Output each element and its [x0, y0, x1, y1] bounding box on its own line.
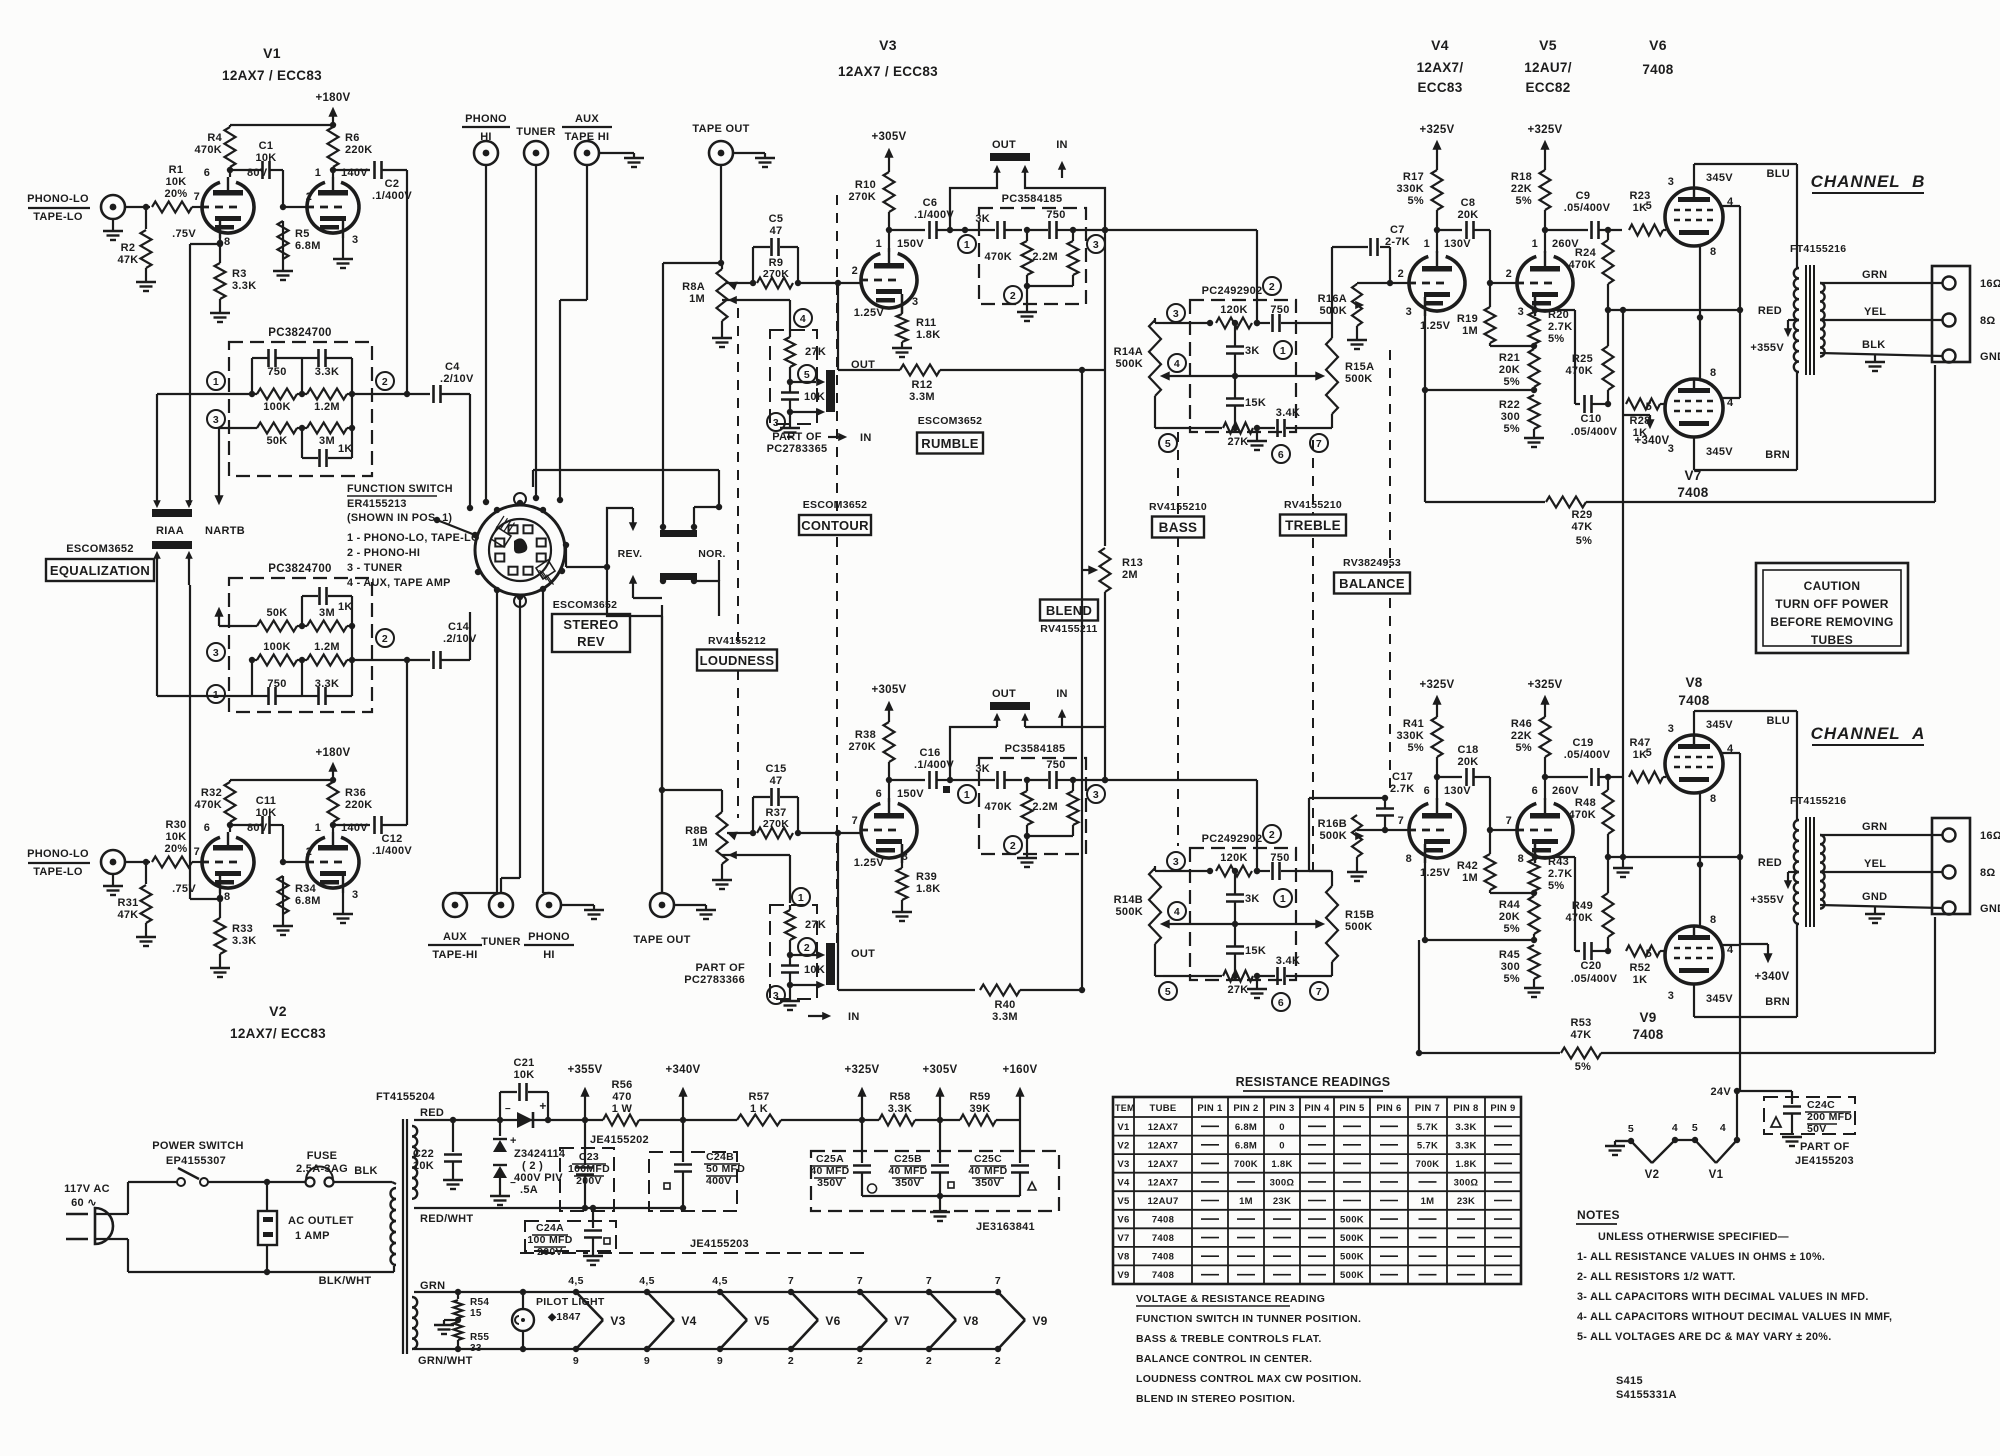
caution box — [1756, 563, 1908, 653]
svg-text:270K: 270K — [763, 268, 789, 280]
ground Rk3 — [1524, 437, 1544, 439]
svg-text:V2: V2 — [1645, 1169, 1660, 1181]
heater V3 — [573, 1289, 579, 1295]
slide bar OUT lower — [826, 943, 835, 985]
svg-text:BALANCE: BALANCE — [1339, 576, 1405, 591]
svg-text:R56: R56 — [611, 1079, 632, 1091]
wire grid V3b — [798, 832, 861, 834]
svg-text:470: 470 — [612, 1091, 631, 1103]
svg-text:3.3M: 3.3M — [909, 391, 935, 403]
svg-text:27K: 27K — [1227, 984, 1248, 996]
svg-text:500K: 500K — [1340, 1270, 1364, 1281]
svg-text:.75V: .75V — [172, 883, 196, 895]
svg-text:STEREO: STEREO — [563, 617, 618, 632]
svg-text:YEL: YEL — [1864, 858, 1886, 870]
svg-text:R36: R36 — [345, 787, 366, 799]
arrows up bar2 — [154, 552, 160, 558]
wire R40 column — [837, 833, 839, 990]
svg-text:JE4155203: JE4155203 — [690, 1238, 749, 1250]
svg-text:12AX7 / ECC83: 12AX7 / ECC83 — [838, 64, 938, 79]
svg-text:R41: R41 — [1403, 718, 1424, 730]
svg-text:C25B: C25B — [894, 1153, 922, 1165]
transformer secondary — [1820, 835, 1825, 909]
svg-text:3: 3 — [1668, 723, 1674, 735]
svg-text:R40: R40 — [994, 999, 1015, 1011]
wire plug up — [127, 1182, 129, 1214]
svg-text:7: 7 — [995, 1275, 1001, 1287]
svg-text:V5: V5 — [754, 1314, 769, 1328]
capacitor 3.3K — [302, 357, 318, 359]
capacitor C23 — [584, 1120, 586, 1165]
wire switch to node — [208, 1181, 267, 1183]
dashed JE4155203 line — [520, 1252, 588, 1254]
svg-text:PC2492902: PC2492902 — [1202, 285, 1263, 297]
wire aux gnd — [599, 152, 634, 154]
capacitor C18 20K — [1437, 776, 1462, 778]
capacitor 3.3K — [302, 695, 318, 697]
svg-text:3.3M: 3.3M — [992, 1011, 1018, 1023]
svg-text:RV4155211: RV4155211 — [1040, 623, 1097, 635]
resistor R29 47K 5% — [1424, 390, 1426, 502]
triode V5 half — [1517, 256, 1573, 311]
resistor R49 470K — [1603, 893, 1614, 937]
dashed box PC2492902 — [1190, 848, 1296, 980]
circled 3 lower — [207, 643, 225, 661]
arrow IN upper — [828, 436, 842, 438]
svg-text:R1: R1 — [169, 164, 184, 176]
svg-text:7408: 7408 — [1152, 1233, 1174, 1244]
ground C22 — [443, 1179, 463, 1181]
svg-text:8: 8 — [1710, 367, 1716, 379]
svg-text:.05/400V: .05/400V — [1564, 202, 1611, 214]
capacitor 3K tone — [1226, 345, 1244, 348]
svg-text:FUNCTION SWITCH: FUNCTION SWITCH — [347, 483, 453, 495]
svg-text:1.8K: 1.8K — [1455, 1159, 1476, 1170]
svg-text:5: 5 — [1646, 200, 1652, 212]
svg-text:R14A: R14A — [1114, 346, 1143, 358]
transformer secondary RED — [412, 1126, 417, 1199]
terminal box — [1932, 266, 1970, 362]
svg-text:AC OUTLET: AC OUTLET — [288, 1215, 354, 1227]
svg-text:IN: IN — [848, 1011, 860, 1023]
svg-text:0: 0 — [1279, 1140, 1285, 1151]
svg-text:300: 300 — [1501, 961, 1520, 973]
svg-text:470K: 470K — [195, 799, 223, 811]
svg-text:7408: 7408 — [1678, 693, 1709, 708]
wire V7 pin4 — [1720, 397, 1740, 399]
svg-text:7408: 7408 — [1152, 1215, 1174, 1226]
ground — [210, 967, 230, 969]
dashed gang bass — [1177, 432, 1179, 516]
resistor R33 3.3K — [219, 893, 221, 918]
svg-text:16Ω: 16Ω — [1980, 278, 2000, 290]
svg-text:33: 33 — [470, 1343, 482, 1354]
svg-text:3.3K: 3.3K — [888, 1103, 912, 1115]
pot R16A 500K — [1357, 282, 1390, 284]
svg-text:100MFD: 100MFD — [568, 1163, 610, 1175]
wire to grid2 — [282, 825, 284, 862]
svg-text:.2/10V: .2/10V — [440, 373, 474, 385]
AC outlet — [258, 1211, 277, 1245]
capacitor C25C 40MFD 350V — [1011, 1164, 1029, 1167]
jack TAPE OUT top — [709, 141, 733, 165]
svg-text:RV4155212: RV4155212 — [708, 635, 766, 647]
svg-text:PART OF: PART OF — [1800, 1141, 1850, 1153]
svg-text:3K: 3K — [975, 763, 990, 775]
svg-text:2- ALL RESISTORS 1/2 WATT.: 2- ALL RESISTORS 1/2 WATT. — [1577, 1271, 1736, 1283]
svg-text:4,5: 4,5 — [712, 1275, 728, 1287]
capacitor C25A 40MFD 350V — [853, 1164, 871, 1167]
svg-text:R58: R58 — [889, 1091, 910, 1103]
svg-text:UNLESS OTHERWISE SPECIFIED—: UNLESS OTHERWISE SPECIFIED— — [1598, 1231, 1789, 1243]
svg-text:300Ω: 300Ω — [1270, 1177, 1295, 1188]
wire rail — [230, 779, 333, 781]
node plate2 — [330, 167, 336, 173]
svg-text:3: 3 — [213, 647, 219, 659]
wire tap GRN — [1820, 834, 1942, 836]
svg-text:BALANCE CONTROL IN CENTER.: BALANCE CONTROL IN CENTER. — [1136, 1353, 1312, 1365]
capacitor 750 rumble lower — [1027, 779, 1048, 781]
svg-text:2: 2 — [1269, 829, 1275, 841]
box RUMBLE — [917, 433, 983, 454]
resistor 120K — [1216, 318, 1252, 329]
ground C24C — [1782, 1136, 1802, 1138]
svg-text:40 MFD: 40 MFD — [968, 1165, 1007, 1177]
svg-text:+355V: +355V — [567, 1064, 602, 1076]
svg-text:330K: 330K — [1397, 730, 1425, 742]
svg-text:ESCOM3652: ESCOM3652 — [66, 543, 134, 555]
wires nodes — [251, 660, 253, 696]
svg-text:V7: V7 — [894, 1314, 909, 1328]
svg-text:2: 2 — [382, 633, 388, 645]
svg-text:1: 1 — [315, 167, 321, 179]
svg-text:3: 3 — [213, 414, 219, 426]
svg-text:GRN: GRN — [1862, 269, 1887, 281]
svg-text:7: 7 — [1316, 986, 1322, 998]
svg-text:7: 7 — [788, 1275, 794, 1287]
svg-text:50K: 50K — [266, 607, 287, 619]
wiper R8A — [728, 282, 737, 289]
capacitor 15K tone — [1226, 397, 1244, 400]
wire C17 to grid — [1382, 827, 1388, 833]
transformer FT4155204 primary — [391, 1188, 397, 1265]
wire R8A tap to 27K — [748, 299, 790, 301]
ground R11 — [892, 347, 912, 349]
svg-text:V1: V1 — [263, 45, 281, 61]
wire R12 up — [1082, 369, 1105, 371]
circled 4 — [794, 309, 812, 327]
svg-text:TREBLE: TREBLE — [1285, 518, 1341, 533]
svg-text:3: 3 — [1668, 990, 1674, 1002]
arrow into bar1 right — [186, 501, 192, 507]
wire rk join — [1490, 345, 1534, 347]
circled 2 — [376, 372, 394, 390]
wire row3 — [1163, 427, 1222, 429]
resistor R58 3.3K — [879, 1115, 915, 1126]
wire eq2 out — [352, 659, 407, 661]
svg-text:2M: 2M — [1122, 569, 1138, 581]
svg-text:V2: V2 — [269, 1003, 287, 1019]
pot wiper R15B — [1316, 920, 1324, 928]
resistor R43 2.7K 5% — [1534, 844, 1536, 857]
svg-text:C17: C17 — [1392, 771, 1413, 783]
svg-text:8: 8 — [224, 236, 230, 248]
svg-text:7408: 7408 — [1632, 1027, 1663, 1042]
svg-text:V6: V6 — [1117, 1215, 1129, 1226]
capacitor C14 .2/10V — [407, 659, 430, 661]
svg-text:470K: 470K — [985, 801, 1013, 813]
svg-text:8Ω: 8Ω — [1980, 867, 1996, 879]
resistor 27K upper — [785, 337, 795, 367]
resistor 100K — [257, 389, 297, 400]
svg-text:PIN 4: PIN 4 — [1304, 1103, 1330, 1114]
wire tapeout gnd — [733, 152, 765, 154]
ground rumble lower — [1026, 836, 1028, 858]
switch bar 2 — [152, 541, 192, 549]
svg-text:2.7K: 2.7K — [1548, 321, 1572, 333]
svg-text:PIN 6: PIN 6 — [1376, 1103, 1401, 1114]
svg-text:PC3824700: PC3824700 — [268, 327, 331, 339]
ground R8A — [712, 337, 732, 339]
svg-text:500K: 500K — [1345, 921, 1373, 933]
wire to grid2 — [282, 170, 284, 207]
svg-text:3.3K: 3.3K — [315, 366, 339, 378]
transformer core — [1805, 265, 1807, 375]
resistor R38 270K — [884, 722, 895, 762]
box STEREO REV — [552, 614, 630, 652]
wire +160V down — [1019, 1120, 1021, 1163]
svg-text:7: 7 — [1398, 815, 1404, 827]
resistor R17 330K 5% — [1432, 170, 1443, 210]
wire blend col — [1081, 370, 1083, 990]
svg-text:3.4K: 3.4K — [1276, 955, 1300, 967]
heater V6 — [788, 1289, 794, 1295]
svg-text:.75V: .75V — [172, 228, 196, 240]
svg-text:3 - TUNER: 3 - TUNER — [347, 562, 403, 574]
capacitor C15 47 — [752, 797, 754, 833]
svg-text:1.2M: 1.2M — [314, 641, 340, 653]
svg-text:ECC82: ECC82 — [1525, 80, 1570, 95]
svg-text:3.3K: 3.3K — [232, 935, 256, 947]
svg-text:9: 9 — [644, 1355, 650, 1367]
svg-text:V8: V8 — [1685, 675, 1702, 690]
jack PHONO HI — [474, 141, 498, 165]
wire tapeout2 gnd — [674, 904, 706, 906]
svg-text:12AX7/: 12AX7/ — [1417, 60, 1464, 75]
svg-text:8: 8 — [1710, 246, 1716, 258]
svg-text:8: 8 — [224, 891, 230, 903]
heater V8 — [926, 1289, 932, 1295]
svg-text:RV4155210: RV4155210 — [1284, 499, 1342, 511]
svg-text:6: 6 — [204, 167, 210, 179]
svg-text:350V: 350V — [975, 1177, 1001, 1189]
resistor 1.2M — [307, 389, 347, 400]
heater V4 — [644, 1289, 650, 1295]
triode R3 section A — [202, 837, 254, 888]
svg-text:10K: 10K — [165, 176, 186, 188]
svg-text:C4: C4 — [445, 361, 460, 373]
svg-text:R15B: R15B — [1345, 909, 1374, 921]
svg-text:6: 6 — [1532, 785, 1538, 797]
wire cathode V4 col — [1424, 297, 1426, 390]
wire row2 — [1167, 923, 1318, 925]
svg-text:500K: 500K — [1340, 1215, 1364, 1226]
wire sw bottom 2 — [519, 597, 521, 878]
svg-text:GRN: GRN — [1862, 821, 1887, 833]
resistor R2 47K — [145, 207, 147, 229]
svg-text:PC3584185: PC3584185 — [1002, 193, 1063, 205]
resistor R48 470K — [1607, 776, 1609, 778]
svg-text:1.25V: 1.25V — [854, 307, 885, 319]
ground — [136, 281, 156, 283]
svg-text:330K: 330K — [1397, 183, 1425, 195]
svg-text:PIN 8: PIN 8 — [1453, 1103, 1478, 1114]
svg-text:470K: 470K — [1569, 809, 1597, 821]
resistor 1.2M — [307, 655, 347, 666]
svg-text:V3: V3 — [610, 1314, 625, 1328]
ground tap — [1874, 907, 1876, 914]
jack PHONO-LO/TAPE-LO — [101, 850, 125, 874]
svg-text:BRN: BRN — [1765, 996, 1790, 1008]
wire R8B top — [662, 789, 722, 791]
svg-text:1M: 1M — [1462, 325, 1478, 337]
svg-text:C1: C1 — [259, 140, 274, 152]
wire V6 plate — [1693, 164, 1695, 188]
ground R39 — [892, 911, 912, 913]
svg-text:5%: 5% — [1548, 333, 1565, 345]
wire B+ rail — [414, 1119, 585, 1121]
svg-text:80V: 80V — [247, 822, 268, 834]
svg-text:3: 3 — [1406, 306, 1412, 318]
svg-text:1M: 1M — [692, 837, 708, 849]
ground rumble — [1026, 286, 1028, 312]
svg-text:ESCOM3652: ESCOM3652 — [803, 499, 868, 511]
svg-text:R39: R39 — [916, 871, 937, 883]
svg-text:RIAA: RIAA — [156, 525, 184, 537]
wire eq2 row 3M left — [219, 625, 252, 627]
svg-text:3: 3 — [773, 417, 779, 429]
svg-text:ER4155213: ER4155213 — [347, 498, 407, 510]
svg-text:10K: 10K — [255, 807, 276, 819]
ground — [210, 312, 230, 314]
heater V1 chevron — [1695, 1140, 1716, 1163]
ground R8B — [712, 879, 732, 881]
svg-text:12AX7/ ECC83: 12AX7/ ECC83 — [230, 1026, 326, 1041]
svg-text:47K: 47K — [117, 909, 138, 921]
svg-text:12AX7: 12AX7 — [1148, 1177, 1179, 1188]
wire R12 column — [837, 283, 839, 370]
wire plug down — [127, 1239, 129, 1272]
svg-text:5%: 5% — [1576, 535, 1593, 547]
svg-text:R55: R55 — [470, 1332, 489, 1343]
svg-text:GRN/WHT: GRN/WHT — [418, 1355, 473, 1367]
box LOUDNESS — [697, 650, 777, 671]
switch contact dots — [472, 532, 478, 538]
svg-text:R21: R21 — [1499, 352, 1520, 364]
ground 10K lower — [789, 985, 791, 1001]
wire V6 pin4 — [1720, 205, 1740, 207]
svg-text:750: 750 — [1046, 209, 1065, 221]
svg-text:5%: 5% — [1516, 195, 1533, 207]
svg-text:C21: C21 — [513, 1057, 534, 1069]
svg-text:5.7K: 5.7K — [1417, 1140, 1438, 1151]
resistor R32 470K — [225, 782, 236, 822]
svg-text:+325V: +325V — [844, 1064, 879, 1076]
wire 24V column — [1739, 944, 1741, 1091]
resistor 3M — [307, 621, 347, 632]
wire V8 pin4 — [1720, 752, 1740, 754]
resistor R6 220K — [328, 127, 339, 167]
capacitor C7 2.7K — [1369, 238, 1372, 256]
wire row1 — [1163, 322, 1210, 324]
wire rumble bottom lower — [1027, 835, 1073, 837]
wire C4 to switch — [469, 394, 471, 508]
svg-text:FT4155204: FT4155204 — [376, 1091, 436, 1103]
svg-text:2: 2 — [382, 376, 388, 388]
svg-text:7: 7 — [926, 1275, 932, 1287]
svg-text:R57: R57 — [748, 1091, 769, 1103]
transformer secondary — [1820, 283, 1825, 357]
svg-text:PIN 9: PIN 9 — [1490, 1103, 1515, 1114]
pot R8B 1M — [717, 812, 728, 864]
dashed box C23 — [560, 1148, 614, 1211]
svg-text:27K: 27K — [1227, 436, 1248, 448]
svg-text:FT4155216: FT4155216 — [1790, 795, 1846, 807]
ground — [136, 936, 156, 938]
wire heater to 24V — [1736, 1091, 1738, 1140]
svg-text:6.8M: 6.8M — [1235, 1122, 1257, 1133]
svg-text:1 - PHONO-LO, TAPE-LO: 1 - PHONO-LO, TAPE-LO — [347, 532, 480, 544]
svg-text:TURN OFF POWER: TURN OFF POWER — [1775, 597, 1889, 611]
svg-text:3: 3 — [912, 296, 918, 308]
wire bottom to coil — [267, 1271, 394, 1273]
svg-text:3M: 3M — [319, 435, 335, 447]
resistor R55 33 — [454, 1322, 463, 1340]
svg-text:2: 2 — [926, 1355, 932, 1367]
resistor R37 270K — [750, 830, 756, 836]
circled nums — [1167, 852, 1185, 870]
svg-text:R42: R42 — [1457, 860, 1478, 872]
svg-text:100K: 100K — [263, 641, 291, 653]
svg-text:750: 750 — [267, 678, 286, 690]
svg-text:+340V: +340V — [1634, 435, 1669, 447]
svg-text:8: 8 — [1710, 914, 1716, 926]
svg-text:7: 7 — [1506, 815, 1512, 827]
svg-text:5%: 5% — [1408, 195, 1425, 207]
wire sw bottom jacks — [496, 590, 498, 893]
triode section B — [307, 837, 359, 888]
triode V4 half — [1409, 256, 1465, 311]
wire right join — [351, 626, 353, 660]
svg-text:CHANNEL A: CHANNEL A — [1811, 724, 1926, 743]
svg-text:TAPE OUT: TAPE OUT — [692, 123, 749, 135]
svg-text:GND: GND — [1980, 903, 2000, 915]
node 3K lower — [1024, 777, 1030, 783]
svg-text:3: 3 — [1668, 176, 1674, 188]
svg-text:BLK: BLK — [1862, 339, 1886, 351]
circled 1 lower loud — [792, 888, 810, 906]
svg-text:3.3K: 3.3K — [1455, 1140, 1476, 1151]
svg-text:C8: C8 — [1461, 197, 1476, 209]
svg-text:R2: R2 — [121, 242, 136, 254]
wire sw jack links — [454, 892, 456, 894]
ground heater — [444, 1319, 458, 1321]
svg-text:JE4155202: JE4155202 — [590, 1134, 649, 1146]
capacitor C1 10K — [230, 169, 262, 171]
svg-text:4: 4 — [1720, 1122, 1726, 1134]
svg-text:PHONO-LO: PHONO-LO — [27, 193, 89, 205]
pwr +340V channel A — [1740, 943, 1768, 945]
